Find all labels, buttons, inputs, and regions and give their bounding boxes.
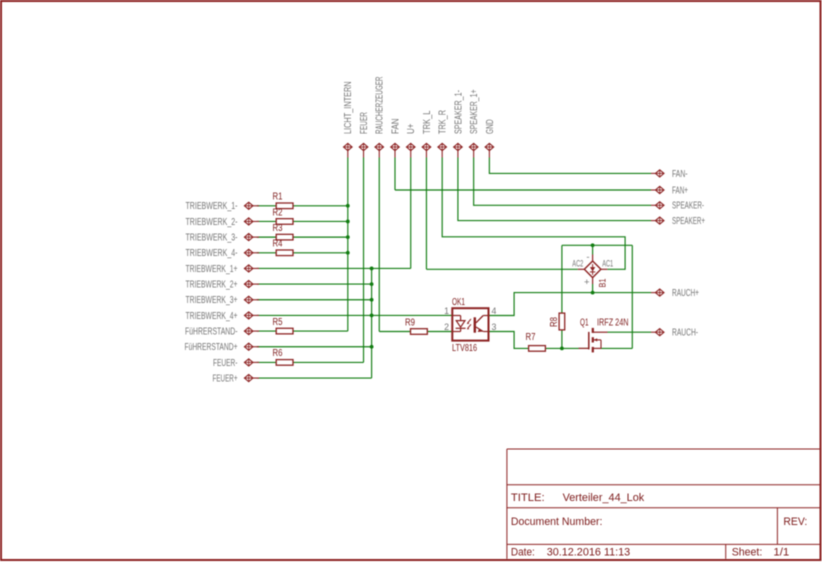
svg-text:RAUCH-: RAUCH- [672, 328, 698, 339]
wire TRIEBWERK_4- to R4 [257, 252, 276, 254]
connector TRIEBWERK_1- [186, 201, 260, 212]
connector FEUER- [213, 358, 259, 369]
svg-text:FEUER-: FEUER- [213, 358, 238, 369]
svg-text:TRIEBWERK_2-: TRIEBWERK_2- [186, 217, 238, 228]
connector RAUCHERZEUGER [375, 77, 386, 158]
title block Date row [511, 547, 789, 559]
svg-text:FAN+: FAN+ [672, 185, 688, 196]
connector FAN+ [651, 185, 688, 196]
svg-text:REV:: REV: [783, 516, 807, 528]
svg-text:IRFZ 24N: IRFZ 24N [597, 317, 629, 328]
wire net RAUCHERZEUGER [379, 158, 452, 332]
title block frame [507, 449, 820, 559]
resistor R5 [273, 317, 294, 334]
svg-text:FEUER+: FEUER+ [213, 373, 238, 384]
connector GND [485, 119, 496, 157]
svg-text:OK1: OK1 [452, 297, 465, 308]
connector SPEAKER- [651, 201, 704, 212]
svg-text:TRIEBWERK_4-: TRIEBWERK_4- [186, 248, 238, 259]
connector RAUCH- [651, 328, 698, 339]
svg-text:B1: B1 [598, 279, 608, 288]
connector FEUER [359, 112, 370, 158]
svg-text:AC2: AC2 [572, 259, 583, 269]
svg-text:U+: U+ [406, 123, 417, 134]
resistor R2 [273, 207, 294, 224]
connector TRIEBWERK_2- [186, 217, 260, 228]
wire FEUER- to R6 [257, 361, 276, 363]
svg-text:LTV816: LTV816 [452, 343, 477, 354]
wire net FEUER [293, 158, 364, 363]
svg-text:TITLE:: TITLE: [511, 492, 545, 504]
title block Document Number row [511, 516, 807, 528]
bridge rectifier B1 [572, 252, 613, 288]
wire FUHRERSTAND- to R5 [257, 330, 276, 332]
connector FAN [390, 118, 401, 157]
connector RAUCH+ [651, 288, 699, 299]
wire drain to RAUCH- [608, 331, 652, 333]
svg-text:R8: R8 [549, 317, 560, 327]
connector U+ [406, 123, 417, 157]
svg-text:R2: R2 [273, 207, 283, 218]
connector LICHT_INTERN [343, 81, 354, 157]
resistor R4 [273, 239, 294, 256]
junction dots LICHT_INTERN [346, 204, 350, 255]
wire net gate [489, 332, 589, 349]
svg-text:TRIEBWERK_2+: TRIEBWERK_2+ [186, 280, 238, 291]
connector TRIEBWERK_4- [186, 248, 260, 259]
svg-text:Q1: Q1 [580, 317, 589, 328]
junction dot gate node [560, 347, 564, 351]
wire TRIEBWERK_1- to R1 [257, 205, 276, 207]
svg-text:R7: R7 [526, 332, 536, 343]
svg-text:SPEAKER_1+: SPEAKER_1+ [469, 89, 480, 134]
wire net SPEAKER_1- [458, 158, 651, 221]
svg-text:R6: R6 [273, 348, 283, 359]
svg-text:Document Number:: Document Number: [511, 516, 603, 528]
svg-text:TRK_R: TRK_R [438, 110, 449, 134]
svg-text:R9: R9 [405, 317, 415, 328]
svg-text:SPEAKER+: SPEAKER+ [672, 216, 705, 227]
wire TRIEBWERK_2- to R2 [257, 220, 276, 222]
wire TRIEBWERK_3- to R3 [257, 236, 276, 238]
svg-text:30.12.2016 11:13: 30.12.2016 11:13 [547, 547, 631, 559]
svg-text:GND: GND [485, 119, 496, 134]
connector FAN- [651, 169, 688, 180]
svg-text:R3: R3 [273, 223, 283, 234]
svg-text:1: 1 [444, 306, 449, 316]
svg-text:FüHRERSTAND+: FüHRERSTAND+ [185, 342, 238, 353]
wire net RAUCH+ [489, 284, 652, 316]
wire net GND [489, 158, 651, 174]
svg-text:LICHT_INTERN: LICHT_INTERN [343, 81, 354, 134]
svg-text:2: 2 [444, 322, 449, 332]
connector SPEAKER_1- [453, 90, 464, 158]
connector TRK_R [438, 110, 449, 158]
svg-text:TRIEBWERK_4+: TRIEBWERK_4+ [186, 311, 238, 322]
connector FüHRERSTAND- [185, 326, 259, 337]
connector TRIEBWERK_3+ [186, 295, 260, 306]
wire net TRK_L [426, 158, 577, 270]
svg-text:FüHRERSTAND-: FüHRERSTAND- [185, 326, 238, 337]
svg-text:TRIEBWERK_1+: TRIEBWERK_1+ [186, 264, 238, 275]
svg-text:AC1: AC1 [602, 259, 613, 269]
svg-text:TRIEBWERK_3-: TRIEBWERK_3- [186, 233, 238, 244]
svg-text:R1: R1 [273, 192, 283, 203]
resistor R6 [273, 348, 294, 365]
resistor R1 [273, 192, 294, 209]
svg-text:SPEAKER_1-: SPEAKER_1- [453, 90, 464, 134]
svg-text:4: 4 [492, 306, 497, 316]
wire net U+ [257, 158, 453, 379]
title block TITLE row [511, 492, 645, 504]
wire net LICHT_INTERN [293, 158, 348, 332]
junction dot minus node [591, 243, 595, 247]
svg-text:-: - [586, 252, 589, 263]
wire net FAN [395, 158, 651, 191]
svg-text:TRIEBWERK_1-: TRIEBWERK_1- [186, 201, 238, 212]
junction dot RAUCH+ bridge [591, 291, 595, 295]
connector SPEAKER+ [651, 216, 705, 227]
connector FüHRERSTAND+ [185, 342, 260, 353]
wire net minus-node [562, 245, 632, 348]
svg-text:RAUCH+: RAUCH+ [672, 288, 699, 299]
svg-text:R4: R4 [273, 239, 283, 250]
svg-text:FAN-: FAN- [672, 169, 688, 180]
op-amp OK1 optocoupler LTV816 [444, 297, 496, 354]
svg-text:R5: R5 [273, 317, 283, 328]
svg-text:SPEAKER-: SPEAKER- [672, 201, 704, 212]
resistor R7 [526, 332, 546, 351]
svg-text:RAUCHERZEUGER: RAUCHERZEUGER [375, 77, 386, 135]
wire net SPEAKER_1+ [474, 158, 651, 206]
connector TRIEBWERK_4+ [186, 311, 260, 322]
connector TRIEBWERK_1+ [186, 264, 260, 275]
connector SPEAKER_1+ [469, 89, 480, 157]
connector TRIEBWERK_2+ [186, 280, 260, 291]
svg-text:1/1: 1/1 [773, 547, 789, 559]
junction dots U+ branch [370, 267, 374, 349]
svg-text:TRK_L: TRK_L [422, 110, 433, 134]
connector FEUER+ [213, 373, 260, 384]
resistor R3 [273, 223, 294, 240]
svg-text:TRIEBWERK_3+: TRIEBWERK_3+ [186, 295, 238, 306]
svg-text:Date:: Date: [511, 547, 535, 559]
svg-text:Sheet:: Sheet: [732, 547, 763, 559]
connector TRIEBWERK_3- [186, 233, 260, 244]
wire net TRK_R [442, 158, 625, 270]
transistor Q1 IRFZ 24N [579, 317, 629, 352]
resistor R9 [405, 317, 427, 334]
resistor R8 [549, 313, 565, 330]
svg-text:3: 3 [492, 322, 497, 332]
svg-text:FEUER: FEUER [359, 112, 370, 134]
svg-text:FAN: FAN [390, 118, 401, 134]
svg-text:+: + [584, 277, 590, 288]
svg-text:Verteiler_44_Lok: Verteiler_44_Lok [563, 492, 645, 504]
connector TRK_L [422, 110, 433, 157]
